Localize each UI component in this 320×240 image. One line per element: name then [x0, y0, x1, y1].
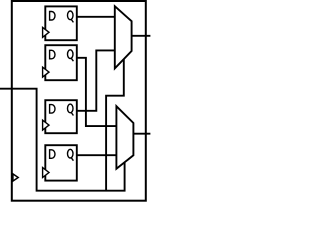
wire Q1 to M1 input d0 — [77, 16, 115, 18]
label D of U4 — [50, 150, 55, 159]
label Q of U4 — [68, 149, 74, 160]
label Q of U3 — [68, 104, 74, 115]
outer module frame — [12, 1, 146, 201]
flip-flop U4 — [43, 145, 77, 180]
clock input pin on frame — [13, 174, 18, 181]
flip-flop U3 — [43, 100, 77, 133]
wire Q2 to M2 input d0 — [77, 58, 117, 126]
flip-flop U2 — [43, 45, 77, 80]
flip-flop U1 — [43, 6, 77, 40]
label Q of U2 — [68, 50, 74, 61]
mux M2 — [116, 106, 133, 169]
wire M2 output — [133, 133, 150, 135]
label D of U2 — [50, 50, 55, 59]
label Q of U1 — [68, 11, 74, 22]
wire Q4 to M2 input d1 — [77, 154, 117, 156]
label D of U1 — [50, 12, 55, 21]
label D of U3 — [50, 105, 55, 114]
mux M1 — [115, 6, 132, 68]
wire Q3 to M1 input d1 — [77, 50, 115, 110]
wire select branch to M1 — [106, 59, 124, 191]
wire select input net — [0, 89, 125, 191]
wire M1 output — [132, 35, 151, 37]
